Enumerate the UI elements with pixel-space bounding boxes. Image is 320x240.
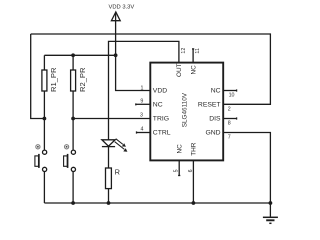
pin 5 NC stub [178,160,180,175]
svg-text:R2_PR: R2_PR [78,67,87,92]
svg-text:6: 6 [188,169,194,172]
wire left vertical to R1 bottom [31,34,45,119]
svg-text:R1_PR: R1_PR [49,67,58,92]
pin 4 CTRL stub [137,132,151,134]
switch S1 [35,145,47,172]
svg-text:5: 5 [174,169,180,172]
svg-text:VDD: VDD [153,88,167,95]
svg-text:11: 11 [195,48,201,54]
wire R2 bottom lead [72,91,74,119]
node R bottom junction [107,201,111,205]
svg-text:OUT: OUT [176,63,183,77]
switch S2 [64,145,76,172]
svg-text:THR: THR [191,142,198,156]
svg-text:TRIG: TRIG [153,116,169,123]
wire LED to resistor R [108,147,110,168]
svg-text:8: 8 [228,121,231,127]
svg-text:4: 4 [141,127,144,133]
node THR junction [192,201,196,205]
wire switch2 bottom lead [72,172,74,204]
svg-text:GND: GND [205,130,220,137]
svg-text:NC: NC [153,102,163,109]
svg-text:NC: NC [190,65,197,75]
svg-text:VDD 3.3V: VDD 3.3V [109,5,135,11]
node R2 bottom junction [71,117,75,121]
wire R1 bottom lead [43,91,45,119]
pin 9 NC stub [136,103,151,105]
wire switch1 bottom lead [43,172,45,204]
LED D1 [102,139,128,152]
node ground junction [269,201,273,205]
svg-text:1: 1 [141,85,144,91]
svg-text:R: R [115,168,120,177]
wire THR pin 6 to bottom rail [192,160,194,203]
wire GND pin 7 to ground [223,133,270,217]
resistor R [106,168,112,189]
svg-text:CTRL: CTRL [153,130,171,137]
svg-text:NC: NC [176,144,183,154]
svg-text:SLG46110V: SLG46110V [181,92,188,127]
wire bottom rail [44,202,270,204]
wire power vertical to junction [115,13,117,56]
wire power junction to VDD pin 1 [116,55,151,90]
svg-text:RESET: RESET [198,102,221,109]
ground symbol [263,217,278,223]
pin 10 NC stub [223,90,236,92]
node power junction [114,53,118,57]
node R1 bottom junction [43,117,47,121]
wire R bottom lead [108,189,110,203]
svg-text:NC: NC [211,88,221,95]
wire OUT pin 12 to LED top [109,41,179,139]
wire top rail to RESET pin 2 [31,34,271,104]
svg-text:7: 7 [228,135,231,141]
IC U1 SLG46110V box [150,63,223,161]
svg-text:DIS: DIS [209,116,221,123]
wire R1 top lead [43,55,45,70]
wire R2 bottom to TRIG pin 3 [73,118,150,120]
svg-text:3: 3 [140,113,143,119]
svg-text:10: 10 [229,93,235,99]
node switch2 bottom junction [71,201,75,205]
power VDD 3.3V symbol [111,12,120,21]
wire resistor top rail [44,54,115,56]
pin 8 DIS stub [223,118,236,120]
node R2 top junction [71,53,75,57]
wire R2 top lead [72,55,74,70]
pin 11 NC stub [192,49,194,63]
svg-text:9: 9 [140,99,143,105]
wire switch1 top lead [43,119,45,151]
svg-text:12: 12 [181,48,187,54]
resistor R1_PR [42,70,47,91]
svg-text:2: 2 [228,106,231,112]
resistor R2_PR [71,70,76,91]
wire switch2 top lead [72,119,74,151]
